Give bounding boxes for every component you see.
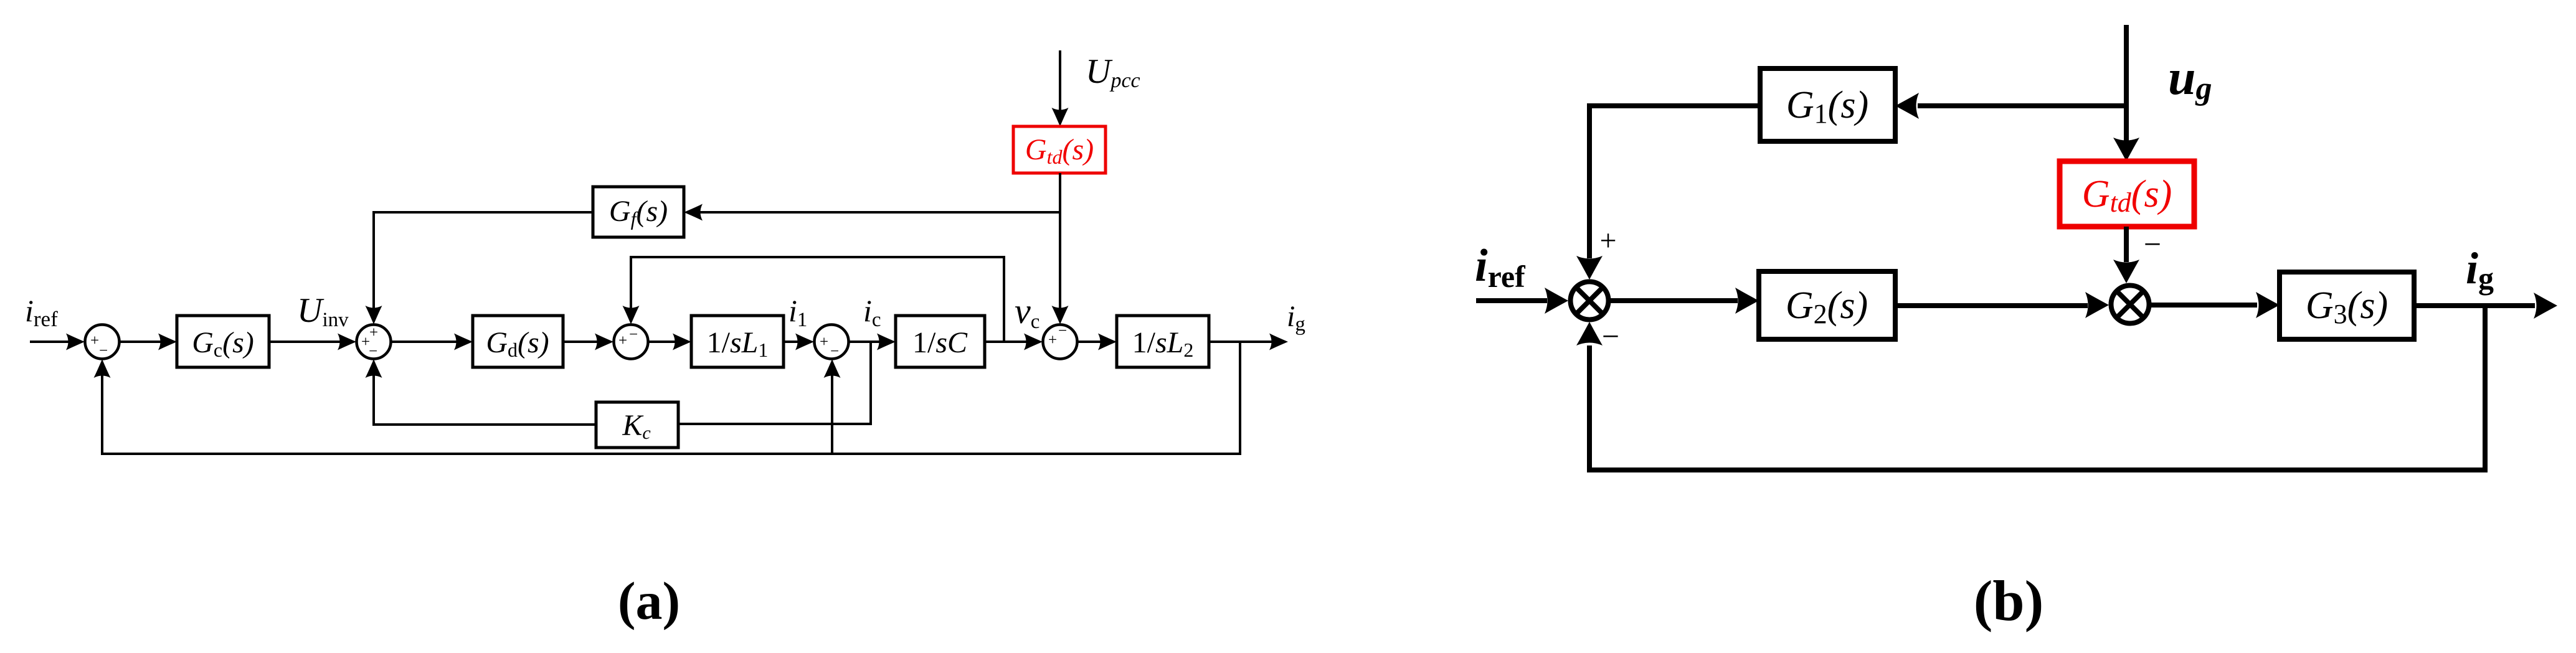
- multiplier junction M2 (b): [2111, 286, 2149, 324]
- svg-text:(a): (a): [618, 571, 680, 631]
- wire: S3 to 1/sL1: [648, 334, 691, 350]
- wire: ig feedback bottom line to S1 and S4: [94, 342, 1241, 454]
- block G2(s) (b): [1759, 271, 1895, 339]
- block 1/sL2: [1117, 316, 1209, 367]
- svg-text:−: −: [830, 343, 839, 360]
- wire: G2 to multiplier M2 (b): [1895, 292, 2109, 318]
- svg-text:+: +: [1599, 224, 1616, 257]
- wire: Gf output to S2 top: [366, 212, 594, 324]
- block Gf(s): [593, 187, 684, 237]
- block Kc: [596, 402, 678, 448]
- svg-text:Gc(s): Gc(s): [192, 326, 254, 361]
- block 1/sL1: [691, 316, 784, 367]
- svg-text:+: +: [90, 332, 99, 349]
- wire: M2 to G3 (b): [2151, 292, 2280, 318]
- wire: S1 to Gc: [120, 334, 177, 350]
- svg-text:G3(s): G3(s): [2306, 284, 2388, 329]
- wire: vc feedback to S3 top: [623, 257, 1005, 342]
- wire: 1/sL1 to summer S4 (i1): [784, 334, 814, 350]
- svg-text:G1(s): G1(s): [1786, 84, 1868, 129]
- wire: G3 output ig (b): [2414, 293, 2557, 319]
- wire: Gd to summer S3: [563, 334, 613, 350]
- svg-text:−: −: [1602, 319, 1619, 354]
- wire: G1 output to M1 top (b): [1576, 106, 1760, 280]
- wire: 1/sC to summer S5 (vc) with tap up: [985, 334, 1043, 350]
- block 1/sC: [896, 316, 985, 367]
- wire: ug branch to G1 (b): [1895, 93, 2126, 119]
- wire: M1 to G2 (b): [1608, 288, 1759, 314]
- wire: i_ref input to multiplier M1 (b): [1476, 288, 1568, 314]
- svg-text:+: +: [369, 324, 378, 341]
- wire: i_ref input to summer S1: [30, 334, 85, 350]
- block Gtd(s) diagram b (red): [2060, 161, 2194, 227]
- svg-text:(b): (b): [1974, 569, 2043, 632]
- summing junction S1: [85, 325, 120, 359]
- wire: ug vertical input (b): [2113, 25, 2139, 161]
- svg-text:G2(s): G2(s): [1786, 284, 1868, 329]
- wire: ig feedback bottom to M1 (b): [1576, 306, 2485, 470]
- wire: Gtd output down to S5 top with branch to Gf: [684, 173, 1069, 324]
- svg-text:1/sC: 1/sC: [912, 326, 968, 359]
- svg-text:+: +: [1048, 332, 1057, 349]
- block Gtd(s) diagram a (red): [1013, 126, 1106, 173]
- wire: S4 to 1/sC (ic) with tap to Kc: [678, 334, 896, 425]
- svg-text:−: −: [369, 343, 377, 360]
- wire: S2 to Gd: [391, 334, 473, 350]
- wire: Gtd output to M2 top (b): [2113, 227, 2139, 283]
- wire: 1/sL2 output ig: [1209, 334, 1288, 350]
- summing junction S2: [357, 325, 391, 359]
- summing junction S4: [815, 325, 849, 359]
- multiplier junction M1 (b): [1571, 282, 1609, 320]
- svg-text:+: +: [820, 334, 828, 350]
- svg-text:−: −: [2144, 227, 2161, 261]
- block G1(s) (b): [1760, 68, 1895, 141]
- block G3(s) (b): [2280, 272, 2414, 339]
- svg-text:+: +: [618, 332, 627, 349]
- summing junction S3: [614, 325, 648, 359]
- svg-text:−: −: [99, 342, 108, 359]
- wire: Kc output to S2 bottom: [366, 359, 597, 425]
- svg-text:−: −: [1058, 322, 1067, 339]
- summing junction S5: [1043, 325, 1077, 359]
- block Gd(s): [473, 316, 563, 367]
- wire: S5 to 1/sL2: [1077, 334, 1117, 350]
- svg-text:Gd(s): Gd(s): [486, 326, 549, 361]
- svg-text:Gf(s): Gf(s): [609, 195, 668, 230]
- block Gc(s): [177, 316, 269, 367]
- wire: Upcc input arrow into Gtd: [1052, 50, 1069, 126]
- wire: Gc to summer S2 (Uinv): [269, 334, 356, 350]
- svg-text:−: −: [629, 326, 638, 343]
